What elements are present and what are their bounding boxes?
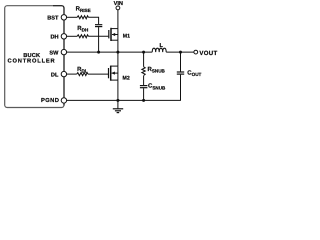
capacitor COUT [177, 71, 184, 73]
node: COUT tap [179, 51, 182, 54]
ground symbol [113, 100, 123, 112]
svg-text:COUT: COUT [187, 69, 201, 77]
svg-text:RDL: RDL [77, 66, 88, 74]
capacitor CSNUB [140, 85, 148, 87]
node: M1 source / M2 drain on SW [116, 51, 119, 54]
svg-text:RRISE: RRISE [76, 5, 91, 13]
svg-text:CSNUB: CSNUB [148, 83, 166, 91]
wire COUT top: VOUT node down [180, 52, 182, 71]
svg-text:M2: M2 [123, 75, 130, 81]
svg-text:DL: DL [51, 72, 59, 78]
SW rail wire [67, 51, 153, 53]
node: M2 source on ground rail [116, 99, 119, 102]
wire RDL to M2 gate [88, 73, 108, 75]
svg-text:BST: BST [47, 15, 59, 21]
svg-text:L: L [159, 43, 163, 49]
svg-text:VOUT: VOUT [199, 50, 217, 57]
buck controller box U1 [5, 6, 64, 108]
wire L to VOUT [166, 51, 194, 53]
wire M2 source to ground rail [117, 80, 119, 100]
wire CSNUB to ground rail [143, 88, 145, 100]
wire DH to RDH [67, 35, 78, 37]
svg-text:RSNUB: RSNUB [148, 66, 166, 74]
svg-text:DH: DH [51, 35, 59, 41]
pin PGND [61, 98, 66, 103]
node: CSNUB on ground rail [142, 99, 145, 102]
capacitor CBST (bootstrap) [95, 24, 102, 26]
wire RSNUB to CSNUB [143, 76, 145, 85]
resistor RRISE [77, 16, 88, 19]
ground rail wire PGND to COUT [67, 99, 181, 101]
wire RRISE to CBST corner [88, 17, 98, 24]
svg-text:SW: SW [49, 50, 59, 56]
resistor RDH [77, 35, 88, 38]
inductor L [152, 48, 166, 52]
svg-text:M1: M1 [123, 33, 130, 39]
resistor RSNUB [142, 67, 145, 76]
wire DL to RDL [67, 73, 77, 75]
wire COUT bottom to ground rail corner [180, 75, 182, 101]
terminal VOUT [194, 50, 198, 54]
resistor RDL [77, 73, 88, 76]
pin DH [61, 34, 66, 39]
pin BST [61, 15, 66, 20]
wire RDH to M1 gate [88, 35, 108, 37]
transistor M2 [109, 66, 130, 82]
wire VIN to M1 drain [117, 10, 119, 29]
wire BST to RRISE [67, 16, 78, 18]
pin SW [61, 49, 66, 54]
transistor M1 [109, 28, 130, 41]
wire CBST to SW rail [98, 27, 100, 52]
wire M1 source to SW rail [117, 40, 119, 52]
wire SW to M2 drain [117, 52, 119, 66]
node: CBST to SW [97, 51, 100, 54]
pin DL [61, 71, 66, 76]
svg-text:RDH: RDH [77, 25, 89, 33]
svg-text:CONTROLLER: CONTROLLER [8, 58, 56, 64]
node: snubber leg on SW [142, 51, 145, 54]
wire snubber leg: SW to RSNUB [143, 52, 145, 67]
svg-text:PGND: PGND [41, 97, 59, 104]
